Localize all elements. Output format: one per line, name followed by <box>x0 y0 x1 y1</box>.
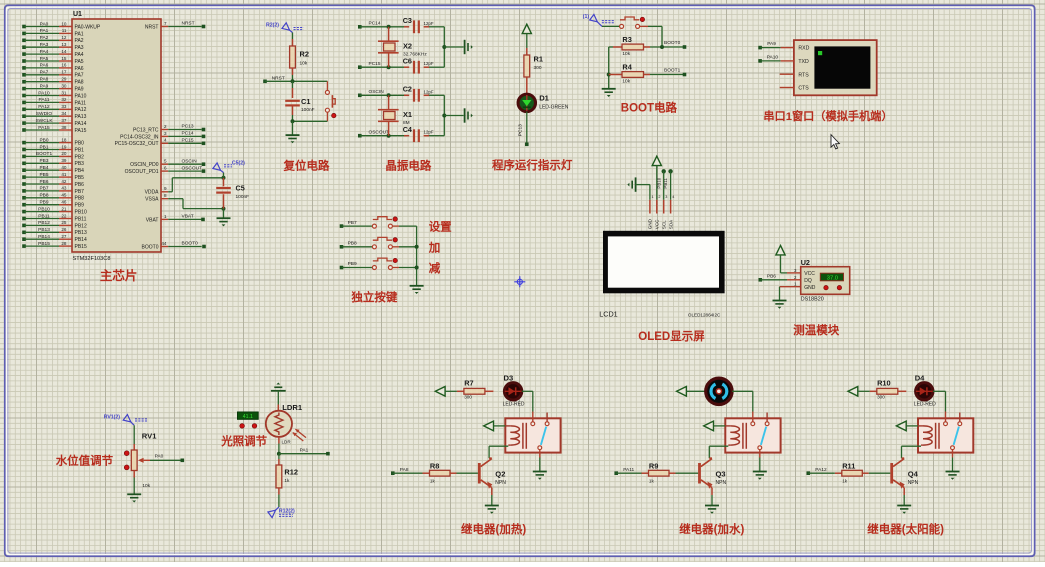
svg-text:PA0: PA0 <box>155 454 164 460</box>
svg-text:40: 40 <box>61 165 67 170</box>
svg-text:PB10: PB10 <box>38 206 50 212</box>
svg-text:程序运行指示灯: 程序运行指示灯 <box>492 158 573 172</box>
svg-text:32: 32 <box>61 97 67 102</box>
svg-text:Q3: Q3 <box>716 470 726 479</box>
svg-text:SWCLK: SWCLK <box>35 118 53 124</box>
wire PC14 <box>358 21 404 29</box>
mouse cursor <box>831 135 839 149</box>
wire PB14 / U1 pin 27 <box>22 234 87 243</box>
svg-text:PB12: PB12 <box>75 223 87 229</box>
svg-text:13: 13 <box>61 42 67 47</box>
svg-text:LED-RED: LED-RED <box>503 402 525 408</box>
wire PA0 from RV1 wiper <box>150 454 184 462</box>
push button PB7 设置 <box>340 217 452 234</box>
svg-text:12pF: 12pF <box>424 61 434 66</box>
svg-text:PC13: PC13 <box>518 124 524 136</box>
svg-text:VSSA: VSSA <box>145 197 159 203</box>
wire PC13 / U1 pin 2 <box>133 124 205 134</box>
svg-text:25: 25 <box>61 220 67 225</box>
svg-text:PA7: PA7 <box>40 70 49 76</box>
power arrow above U2 <box>776 246 785 273</box>
svg-text:PA1: PA1 <box>75 31 84 37</box>
svg-text:PA0-WKUP: PA0-WKUP <box>75 24 101 30</box>
svg-text:PB5: PB5 <box>75 175 85 181</box>
wire PA12 / U1 pin 33 <box>22 104 86 113</box>
wire PC14 / U1 pin 3 <box>120 131 205 141</box>
wire collector to relay2 coil bottom <box>709 446 728 458</box>
svg-text:PB15: PB15 <box>38 241 50 247</box>
crystal X1 8M <box>378 95 412 135</box>
ground below C5 <box>217 209 231 227</box>
svg-text:R9: R9 <box>649 461 658 470</box>
wire PC15 / U1 pin 4 <box>115 138 206 148</box>
svg-text:PB10: PB10 <box>75 210 87 216</box>
wire collector to relay1 coil bottom <box>489 446 508 458</box>
svg-text:14: 14 <box>61 49 67 54</box>
svg-text:C6: C6 <box>403 56 412 65</box>
svg-text:PA12: PA12 <box>75 107 87 113</box>
wire PA7 / U1 pin 17 <box>22 70 84 79</box>
svg-text:SDA: SDA <box>668 219 673 229</box>
ground below relay2 contact <box>753 458 767 480</box>
transistor Q4 NPN <box>890 458 918 505</box>
terminal RV1(2) <box>104 415 147 426</box>
svg-text:PA0: PA0 <box>40 21 49 27</box>
svg-text:PA1: PA1 <box>300 447 309 453</box>
svg-text:PA2: PA2 <box>75 38 84 44</box>
wire PA2 / U1 pin 12 <box>22 35 84 44</box>
svg-text:18: 18 <box>61 137 67 142</box>
wire PA10 / U1 pin 31 <box>22 90 86 99</box>
wire PA5 / U1 pin 15 <box>22 56 84 65</box>
svg-text:39: 39 <box>61 158 67 163</box>
svg-text:10k: 10k <box>622 51 630 57</box>
svg-text:12pF: 12pF <box>424 130 434 135</box>
wire PB7 / U1 pin 43 <box>22 186 84 195</box>
svg-text:22: 22 <box>61 213 67 218</box>
ground below BOOT divider <box>602 89 616 97</box>
svg-text:PC13_RTC: PC13_RTC <box>133 127 159 133</box>
label 串口1窗口（模拟手机端） <box>763 109 892 123</box>
label OLED显示屏 <box>638 330 705 343</box>
svg-text:1k: 1k <box>430 479 436 484</box>
svg-text:PB6: PB6 <box>75 182 85 188</box>
wire PA0 / U1 pin 10 <box>22 21 101 30</box>
wire PB13 / U1 pin 26 <box>22 227 87 236</box>
svg-text:41: 41 <box>61 172 67 177</box>
capacitor C5 100nF <box>216 176 249 211</box>
svg-text:15: 15 <box>61 56 67 61</box>
wire PA8 / U1 pin 29 <box>22 77 84 86</box>
svg-text:31: 31 <box>61 90 67 95</box>
svg-text:LCD1: LCD1 <box>599 310 617 319</box>
crystal X2 32.768KHz <box>378 27 427 67</box>
svg-text:6: 6 <box>164 166 167 171</box>
svg-text:OLED12864I2C: OLED12864I2C <box>688 313 721 318</box>
capacitor C4 12pF <box>403 125 445 142</box>
svg-text:RV1: RV1 <box>142 431 157 440</box>
svg-text:43: 43 <box>61 186 67 191</box>
svg-text:PB4: PB4 <box>39 165 48 171</box>
svg-text:GND: GND <box>648 218 653 229</box>
wire right bus <box>442 27 463 67</box>
ground below reset <box>286 121 300 143</box>
pin CTS stub <box>780 87 794 89</box>
svg-text:11: 11 <box>62 28 67 33</box>
svg-text:45: 45 <box>61 193 67 198</box>
svg-text:PA8: PA8 <box>40 77 49 83</box>
svg-text:30: 30 <box>61 83 67 88</box>
svg-text:复位电路: 复位电路 <box>283 159 330 173</box>
svg-text:LDR1: LDR1 <box>282 403 303 412</box>
wire PB10 to SCL <box>656 169 666 200</box>
svg-text:晶振电路: 晶振电路 <box>385 159 431 173</box>
svg-text:X2: X2 <box>403 42 412 51</box>
svg-text:PB3: PB3 <box>75 161 85 167</box>
resistor R12 1k <box>276 454 298 507</box>
svg-text:PC15: PC15 <box>182 138 194 144</box>
svg-text:C1: C1 <box>301 97 310 106</box>
svg-text:PB6: PB6 <box>767 273 776 279</box>
svg-text:4: 4 <box>672 195 674 199</box>
push button PB9 减 <box>340 258 441 275</box>
svg-text:NPN: NPN <box>908 480 919 486</box>
svg-text:PA12: PA12 <box>38 104 50 110</box>
LED D3 LED-RED <box>503 373 525 407</box>
svg-text:测温模块: 测温模块 <box>793 323 839 337</box>
label BOOT电路 <box>621 101 678 115</box>
svg-text:R8: R8 <box>430 461 439 470</box>
pin RTS stub <box>780 73 794 75</box>
label 主芯片 <box>100 268 138 283</box>
label 继电器(太阳能) <box>867 522 944 536</box>
svg-text:32.768KHz: 32.768KHz <box>403 52 427 58</box>
ground below RV1 <box>127 494 141 502</box>
svg-text:PB9: PB9 <box>39 200 48 206</box>
resistor R1 300 <box>524 48 543 77</box>
ground (rotated) right of crystal <box>465 40 473 54</box>
label 复位电路 <box>283 159 330 173</box>
svg-text:27: 27 <box>61 234 67 239</box>
ground below keys <box>410 286 424 294</box>
svg-text:D1: D1 <box>539 94 549 103</box>
wire VCC of U2 <box>781 272 801 274</box>
svg-text:10k: 10k <box>300 61 308 67</box>
origin marker <box>514 276 525 287</box>
svg-text:SWDIO: SWDIO <box>36 111 53 117</box>
svg-text:300: 300 <box>877 395 885 400</box>
svg-text:PA8: PA8 <box>75 80 84 86</box>
svg-text:U2: U2 <box>801 258 810 267</box>
svg-text:STM32F103C8: STM32F103C8 <box>73 256 111 262</box>
svg-text:1: 1 <box>652 195 654 199</box>
svg-text:PA7: PA7 <box>75 73 84 79</box>
label 继电器(加热) <box>461 522 526 536</box>
svg-text:1k: 1k <box>649 479 655 484</box>
svg-text:VCC: VCC <box>655 219 660 229</box>
ground below U2 <box>773 301 787 309</box>
wire PB3 / U1 pin 39 <box>22 158 84 167</box>
svg-text:3: 3 <box>164 131 167 136</box>
power arrow above R1 <box>522 24 531 48</box>
svg-text:PC14-OSC32_IN: PC14-OSC32_IN <box>120 134 159 140</box>
wire PB6 to DQ <box>759 273 801 281</box>
svg-text:PB11: PB11 <box>38 213 50 219</box>
wire PA8 <box>391 467 423 475</box>
wire PA9 to RXD <box>758 41 794 49</box>
transistor Q2 NPN <box>478 458 506 505</box>
svg-text:BOOT0: BOOT0 <box>142 244 159 250</box>
wire collector to relay3 coil bottom <box>902 446 922 458</box>
svg-text:41.1: 41.1 <box>243 414 253 420</box>
svg-text:PB14: PB14 <box>38 234 50 240</box>
svg-text:10k: 10k <box>142 483 150 489</box>
push button reset <box>325 81 336 121</box>
svg-text:PA5: PA5 <box>40 56 49 62</box>
svg-text:R1: R1 <box>534 55 543 64</box>
svg-text:PB12: PB12 <box>38 220 50 226</box>
wire PA11 / U1 pin 32 <box>22 97 86 106</box>
capacitor C2 12pF <box>403 85 445 102</box>
svg-text:PB6: PB6 <box>39 179 48 185</box>
svg-text:NRST: NRST <box>272 76 285 82</box>
ground left of OLED pins <box>627 177 650 199</box>
wire PA6 / U1 pin 16 <box>22 63 84 72</box>
wire PB15 / U1 pin 28 <box>22 241 87 250</box>
svg-text:C4: C4 <box>403 125 412 134</box>
svg-text:NPN: NPN <box>716 480 727 486</box>
svg-text:PA3: PA3 <box>75 45 84 51</box>
svg-text:8: 8 <box>164 193 167 198</box>
wire PB10 / U1 pin 21 <box>22 206 87 215</box>
wire PA10 to TXD <box>758 55 794 63</box>
terminal (1) <box>583 14 614 27</box>
svg-text:D4: D4 <box>915 373 925 382</box>
svg-text:PB10: PB10 <box>656 177 661 188</box>
svg-text:9: 9 <box>164 186 167 191</box>
svg-text:U1: U1 <box>73 11 82 18</box>
svg-text:加: 加 <box>428 240 441 254</box>
svg-text:OSCOUT_PD1: OSCOUT_PD1 <box>125 169 159 175</box>
svg-text:RTS: RTS <box>798 72 809 78</box>
svg-text:PA1: PA1 <box>40 28 49 34</box>
ground (rotated) right of crystal <box>465 108 473 122</box>
power arrow feeding R10 row <box>848 387 870 397</box>
svg-text:VBAT: VBAT <box>146 217 159 223</box>
svg-text:PB1: PB1 <box>75 147 85 153</box>
svg-text:C5: C5 <box>236 184 245 193</box>
svg-text:主芯片: 主芯片 <box>100 268 138 283</box>
resistor R3 10k <box>609 35 650 57</box>
power arrow feeding R7 row <box>435 387 457 397</box>
terminal C5(2) <box>213 160 245 177</box>
svg-text:PA3: PA3 <box>40 42 49 48</box>
svg-text:继电器(加热): 继电器(加热) <box>461 522 526 536</box>
svg-text:CTS: CTS <box>798 86 809 92</box>
power arrow to relay2 coil <box>704 421 726 431</box>
terminal R2(2) <box>266 23 304 33</box>
OLED pin stubs 1-4 <box>648 195 675 229</box>
node NRST <box>263 76 327 84</box>
wire left bus of BOOT <box>607 47 611 88</box>
svg-text:PB9: PB9 <box>348 261 357 267</box>
potentiometer RV1 10k <box>124 425 157 493</box>
svg-text:BOOT0: BOOT0 <box>182 241 199 247</box>
power arrow feeding R9 row <box>677 387 706 397</box>
svg-text:37: 37 <box>61 118 67 123</box>
svg-text:12: 12 <box>61 35 67 40</box>
svg-text:GND: GND <box>804 285 816 291</box>
push button PB8 加 <box>340 237 441 254</box>
svg-text:4: 4 <box>164 138 167 143</box>
svg-text:R2: R2 <box>300 50 309 59</box>
svg-text:2: 2 <box>658 195 660 199</box>
svg-text:PA10: PA10 <box>38 90 50 96</box>
svg-text:PB8: PB8 <box>348 241 357 247</box>
wire D4 to relay3 top <box>933 391 946 411</box>
relay RL1 <box>505 412 560 458</box>
wire PA4 / U1 pin 14 <box>22 49 84 58</box>
svg-text:PA10: PA10 <box>767 55 779 61</box>
svg-text:PB9: PB9 <box>75 203 85 209</box>
wire PB8 / U1 pin 45 <box>22 193 84 202</box>
OLED display LCD1 <box>599 231 724 319</box>
svg-text:X1: X1 <box>403 110 412 119</box>
wire motor to relay2 top <box>732 391 753 411</box>
label 水位值调节 <box>56 454 114 468</box>
wire BOOT1 / U1 pin 20 <box>22 151 84 160</box>
svg-text:PA6: PA6 <box>40 63 49 69</box>
label 独立按键 <box>351 290 397 304</box>
MCU U1 STM32F103C8 body <box>72 11 161 262</box>
svg-text:100nF: 100nF <box>301 107 315 113</box>
svg-text:Q2: Q2 <box>495 470 505 479</box>
svg-text:21: 21 <box>61 206 67 211</box>
svg-text:3: 3 <box>665 195 667 199</box>
svg-text:OSCOUT: OSCOUT <box>182 165 203 171</box>
resistor R10 300 <box>870 379 907 400</box>
resistor R7 300 <box>457 379 494 400</box>
label 测温模块 <box>793 323 839 337</box>
label 程序运行指示灯 <box>492 158 573 172</box>
svg-text:PA4: PA4 <box>75 52 84 58</box>
LDR1 photoresistor <box>266 403 306 445</box>
label 继电器(加水) <box>679 522 744 536</box>
node BOOT0 <box>650 40 686 49</box>
wire keys common bus <box>415 226 419 285</box>
svg-text:(1): (1) <box>583 14 590 20</box>
wire PB1 / U1 pin 19 <box>22 144 84 153</box>
resistor R2 10k <box>290 33 309 82</box>
svg-text:继电器(太阳能): 继电器(太阳能) <box>867 522 944 536</box>
svg-text:PB7: PB7 <box>75 189 85 195</box>
LED D4 LED-RED <box>914 373 936 407</box>
wire OSCOUT <box>358 130 404 138</box>
svg-text:PA12: PA12 <box>815 467 827 473</box>
wire C1 bottom to button <box>291 119 328 123</box>
svg-text:TXD: TXD <box>798 59 809 65</box>
wire PA1 node <box>277 437 330 456</box>
svg-text:20: 20 <box>61 151 67 156</box>
svg-text:R4: R4 <box>622 63 632 72</box>
svg-text:PA13: PA13 <box>75 114 87 120</box>
wire PC15 <box>358 61 404 69</box>
wire PB4 / U1 pin 40 <box>22 165 84 174</box>
svg-text:串口1窗口（模拟手机端）: 串口1窗口（模拟手机端） <box>763 109 892 123</box>
wire PB5 / U1 pin 41 <box>22 172 84 181</box>
svg-text:OLED显示屏: OLED显示屏 <box>638 330 705 343</box>
svg-text:C3: C3 <box>403 16 412 25</box>
relay RL3 <box>918 412 973 458</box>
svg-text:VBAT: VBAT <box>182 214 194 220</box>
wire BOOT0 / U1 pin 44 <box>142 241 206 251</box>
svg-text:R12(2): R12(2) <box>279 509 295 515</box>
svg-text:12pF: 12pF <box>424 89 434 94</box>
svg-text:PC14: PC14 <box>369 21 381 27</box>
svg-text:PB14: PB14 <box>75 237 87 243</box>
svg-text:PB15: PB15 <box>75 244 87 250</box>
svg-text:独立按键: 独立按键 <box>351 290 397 304</box>
svg-text:PA9: PA9 <box>767 41 776 47</box>
LDR value display 41.1 <box>238 412 259 428</box>
svg-text:SCL: SCL <box>662 220 667 229</box>
svg-text:16: 16 <box>61 63 67 68</box>
svg-text:PA5: PA5 <box>75 59 84 65</box>
push button BOOT <box>602 17 662 47</box>
svg-text:BOOT1: BOOT1 <box>36 151 53 157</box>
svg-text:300: 300 <box>464 395 472 400</box>
relay RL2 <box>725 412 780 458</box>
svg-text:PC14: PC14 <box>182 131 194 137</box>
LED D1 LED-GREEN <box>518 77 569 112</box>
svg-text:PA14: PA14 <box>75 121 87 127</box>
temperature sensor U2 DS18B20 <box>794 258 850 303</box>
ground below relay1 contact <box>533 458 547 480</box>
resistor R8 1k <box>423 461 478 483</box>
wire PA15 / U1 pin 38 <box>22 125 86 134</box>
power arrow to relay3 coil <box>896 421 918 431</box>
terminal R12(2) <box>268 507 295 518</box>
svg-text:OSCIN: OSCIN <box>369 89 385 95</box>
svg-text:19: 19 <box>61 144 67 149</box>
ground below Q3 <box>705 506 719 514</box>
wire D3 to relay1 top <box>522 391 533 411</box>
svg-text:PB5: PB5 <box>39 172 48 178</box>
wire PA3 / U1 pin 13 <box>22 42 84 51</box>
svg-text:OSCIN_PD0: OSCIN_PD0 <box>130 162 159 168</box>
svg-text:PB7: PB7 <box>348 220 357 226</box>
wire PB6 / U1 pin 42 <box>22 179 84 188</box>
svg-text:2: 2 <box>164 124 167 129</box>
power arrow to relay1 coil <box>484 421 506 431</box>
svg-text:PA8: PA8 <box>400 467 409 473</box>
svg-text:R10: R10 <box>877 379 891 388</box>
svg-text:26: 26 <box>61 227 67 232</box>
svg-text:OSCOUT: OSCOUT <box>369 130 390 136</box>
svg-text:RV1(2): RV1(2) <box>104 415 121 421</box>
svg-text:PB13: PB13 <box>38 227 50 233</box>
svg-text:PA4: PA4 <box>40 49 49 55</box>
wire PA11 <box>614 467 641 475</box>
svg-text:10k: 10k <box>622 79 630 85</box>
wire PC13 below D1 <box>518 112 529 147</box>
wire PB9 / U1 pin 46 <box>22 200 84 209</box>
svg-text:LED-GREEN: LED-GREEN <box>539 104 569 110</box>
svg-text:PA9: PA9 <box>40 83 49 89</box>
svg-text:DS18B20: DS18B20 <box>801 297 824 303</box>
wire SWDIO / U1 pin 34 <box>22 111 86 120</box>
wire OSCIN <box>358 89 404 97</box>
